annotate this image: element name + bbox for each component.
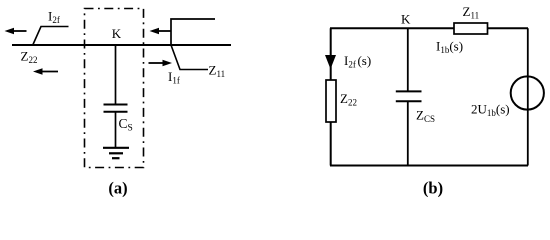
wire left branch [330, 28, 332, 165]
svg-text:K: K [112, 26, 122, 41]
wire middle branch bottom [407, 102, 409, 166]
wire middle branch top [407, 28, 409, 91]
arrow I2f direction (left) [5, 28, 27, 34]
svg-text:K: K [401, 11, 411, 26]
svg-text:(a): (a) [108, 179, 127, 198]
svg-text:I2f(s): I2f(s) [344, 53, 371, 70]
svg-text:I1b(s): I1b(s) [436, 39, 463, 56]
wire capacitor branch top [115, 45, 117, 104]
wire capacitor branch bottom [115, 112, 117, 148]
ground [103, 148, 129, 158]
svg-text:(b): (b) [423, 179, 443, 198]
arrow upper branch (left) [150, 28, 172, 34]
arrow I2f(s) direction (down) [325, 55, 336, 69]
wire upper right branch [171, 19, 215, 45]
arrow Z22 direction (left) [33, 68, 58, 74]
source 2U1b circle [511, 76, 544, 109]
dash-dot boundary box [85, 9, 144, 168]
resistor Z22 [326, 80, 336, 122]
capacitor ZCS plates [396, 91, 422, 101]
resistor Z11 [454, 23, 488, 34]
wire I1f tap (diagonal + horizontal) [171, 45, 208, 70]
arrow I1f direction (right) [149, 60, 173, 66]
wire top [330, 27, 528, 29]
wire main transmission line [12, 44, 231, 46]
wire right branch [527, 28, 529, 165]
capacitor CS plates [104, 105, 128, 112]
wire bottom [330, 165, 528, 167]
wire I2f tap (diagonal + horizontal) [33, 27, 69, 45]
